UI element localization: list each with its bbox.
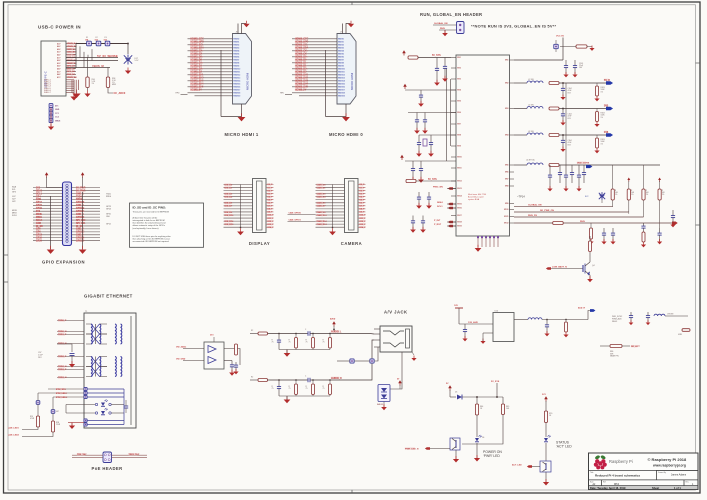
PMIC bottom pin 6 — [497, 236, 499, 247]
ground C A2 — [442, 76, 448, 82]
svg-text:75: 75 — [323, 341, 325, 343]
wire MICRO HDMI 0 pin 1 — [292, 38, 337, 40]
svg-text:D7_P: D7_P — [268, 206, 274, 208]
resistor R divider 1 top — [612, 165, 614, 189]
date and sheet row — [589, 486, 698, 489]
wire LED returns right — [111, 404, 124, 406]
svg-text:D5_P: D5_P — [360, 199, 366, 201]
svg-text:MICRO HDMI 0: MICRO HDMI 0 — [329, 132, 363, 137]
wire GPIO right pin row 2 — [72, 190, 101, 192]
wire GPIO right pin row 9 — [72, 210, 101, 212]
svg-text:DIS_D1: DIS_D1 — [225, 187, 233, 189]
wire GPIO right pin row 5 — [72, 198, 101, 200]
net label MICRO HDMI 0 D1- — [295, 65, 308, 68]
svg-text:system BGA: system BGA — [468, 198, 480, 201]
svg-text:HDMI1_SCL: HDMI1_SCL — [191, 45, 205, 47]
wire MICRO HDMI 1 pin 17 — [188, 86, 233, 88]
svg-text:GP12: GP12 — [106, 224, 111, 226]
wire MICRO HDMI 1 pin 10 — [195, 65, 233, 67]
power flag 3V3 ACT LED — [544, 396, 548, 401]
shunt component audio right 2 — [295, 380, 297, 384]
ground GPIO left — [47, 246, 55, 254]
wire DISPLAY pin 11 right stub — [266, 214, 274, 216]
svg-text:TMDS16: TMDS16 — [338, 87, 345, 89]
svg-text:DISPLAY: DISPLAY — [249, 241, 270, 246]
wire L wifi right — [665, 315, 688, 317]
net label MICRO HDMI 0 CK- — [295, 53, 308, 56]
ferrite bead FB eth LED2 — [51, 410, 55, 414]
wire GPIO left pin row 17 — [33, 234, 63, 236]
svg-text:Sheet: Sheet — [652, 486, 659, 490]
svg-text:5V_B: 5V_B — [604, 79, 610, 82]
net label TRD2_N — [58, 365, 67, 368]
ground LED PWR — [476, 443, 478, 458]
wire ethernet TRD0_N — [57, 331, 84, 333]
svg-text:SPI_CE0: SPI_CE0 — [76, 220, 86, 222]
svg-text:D8_P: D8_P — [268, 209, 274, 211]
svg-text:D2_P: D2_P — [360, 190, 366, 192]
wire CAMERA pin 10 right stub — [358, 211, 366, 213]
net label MICRO HDMI 1 D2+ — [190, 68, 204, 71]
wire DISPLAY pin 11 left — [224, 214, 253, 216]
svg-text:TMDS10: TMDS10 — [233, 69, 240, 71]
svg-text:5V_PWR: 5V_PWR — [76, 190, 86, 192]
op-amp U7B triangle — [208, 357, 216, 364]
svg-text:TRD3_N: TRD3_N — [58, 377, 67, 379]
svg-text:GND_5: GND_5 — [76, 235, 84, 237]
wire CAMERA pin 15 right stub — [358, 226, 366, 228]
svg-text:D6_P: D6_P — [268, 203, 274, 205]
connector MICRO HDMI 1 body J1 — [233, 34, 252, 105]
wire MICRO HDMI 1 pin 20 — [195, 95, 233, 97]
PMIC right pin R7 stub — [510, 178, 515, 180]
svg-text:DIS_D4: DIS_D4 — [225, 196, 233, 199]
wire GPIO left pin row 6 — [33, 201, 63, 203]
PMIC bottom pin 1 — [477, 236, 479, 247]
wire USB-C pin SBU1_A8 — [66, 59, 76, 61]
wire GPIO left pin row 1 — [33, 187, 63, 189]
svg-text:HDMI0_SH3: HDMI0_SH3 — [295, 81, 309, 83]
shunt component audio left 2 — [295, 334, 297, 338]
net label MICRO HDMI 1 HPD — [190, 41, 204, 44]
current sense resistor 1V8 — [549, 134, 559, 137]
svg-text:6V3: 6V3 — [568, 144, 571, 146]
svg-text:CC_ADC0: CC_ADC0 — [114, 92, 126, 95]
A/V jack inner contact bar — [406, 329, 410, 348]
net port VDD_CORE — [586, 165, 592, 168]
svg-text:5V_PWR: 5V_PWR — [76, 187, 86, 189]
ground C A1 — [434, 80, 440, 86]
ground Q4 source — [589, 275, 591, 279]
svg-text:HDMI1_D1-: HDMI1_D1- — [191, 66, 203, 68]
svg-text:GPIO23: GPIO23 — [76, 208, 85, 210]
ground audio left chain — [284, 350, 291, 357]
PMIC left pin 9 stub — [451, 145, 456, 147]
capacitor C out 3V3 1 — [561, 109, 565, 123]
svg-text:than attaching an I2C ID EEPRO: than attaching an I2C ID EEPROM. Leave — [133, 237, 171, 240]
net port 5V_B — [606, 81, 613, 85]
svg-text:TMDS18: TMDS18 — [338, 93, 345, 95]
svg-text:TMDS18: TMDS18 — [233, 93, 240, 95]
svg-text:TMDS8: TMDS8 — [338, 63, 344, 65]
svg-text:REG3: REG3 — [612, 321, 617, 323]
wire DISPLAY pin 4 right stub — [266, 193, 274, 195]
capacitor C audio vdd — [463, 324, 467, 338]
wire 5V_B node — [559, 82, 606, 84]
wire CAMERA pin 14 left — [316, 223, 345, 225]
svg-text:GND: GND — [36, 199, 41, 201]
current sense resistor 3V3 — [549, 107, 559, 110]
capacitor C input E2 — [419, 161, 423, 179]
inductor L audio — [528, 318, 542, 320]
capacitor C out 1V8 1 — [561, 135, 565, 149]
ground C core bank 550 — [547, 186, 552, 191]
svg-text:TR23_TAP: TR23_TAP — [129, 453, 140, 456]
svg-text:These pins are reserved for ID: These pins are reserved for ID EEPROM — [133, 212, 170, 214]
wire GPIO left pin row 19 — [33, 240, 63, 242]
DISPLAY ground drop wire — [240, 185, 242, 228]
wire MICRO HDMI 0 pin 5 — [292, 50, 337, 52]
svg-text:SCL1: SCL1 — [437, 206, 443, 208]
svg-text:TMDS3: TMDS3 — [233, 48, 239, 50]
wire CAMERA pin 1 left — [316, 184, 345, 186]
resistor R pullup top — [576, 45, 587, 48]
svg-text:D7_P: D7_P — [360, 206, 366, 208]
wire DISPLAY pin 14 right stub — [266, 223, 274, 225]
wire DISPLAY pin 7 left — [224, 202, 253, 204]
resistor R fb 3V3 — [596, 109, 598, 112]
PMIC left pin 16 stub — [451, 207, 456, 209]
svg-text:unconnected if ID EEPROM not r: unconnected if ID EEPROM not required. — [133, 240, 170, 243]
wire Q4 drain to rail — [589, 236, 591, 241]
svg-text:D9_P: D9_P — [360, 212, 366, 214]
ground C F1 — [416, 203, 422, 209]
svg-text:CC1: CC1 — [55, 113, 59, 115]
MICRO HDMI 0 shield bus vertical — [325, 50, 327, 117]
svg-text:A/V JACK: A/V JACK — [384, 310, 408, 315]
wire GPIO right pin row 8 — [72, 207, 101, 209]
resistor R eth LED2 — [51, 421, 54, 432]
PMIC left pin 19 stub — [451, 225, 456, 227]
svg-text:GP13: GP13 — [36, 235, 43, 237]
svg-text:VIN13: VIN13 — [457, 188, 462, 190]
wire VDD_CORE rail — [559, 164, 660, 166]
net label MICRO HDMI 1 SCL — [190, 44, 204, 47]
wire ethernet TRD1_P — [57, 334, 84, 336]
wire DISPLAY pin 10 right stub — [266, 211, 274, 213]
ground C core bank 579 — [576, 186, 581, 191]
svg-text:D0_P: D0_P — [360, 184, 366, 186]
wire ethernet TRD3_P — [57, 369, 84, 371]
MICRO HDMI 0 shield bus bottom — [326, 116, 347, 118]
svg-text:ID_SD: ID_SD — [36, 226, 43, 228]
jack LED pin square 2 — [84, 391, 87, 394]
fuse F1 on VBUS rail — [87, 41, 92, 46]
svg-text:5V_SYS: 5V_SYS — [491, 381, 500, 383]
wire USB-C pin SBU2_B8 — [66, 62, 76, 64]
svg-text:75: 75 — [272, 388, 274, 390]
wire GPIO right pin row 4 — [72, 195, 101, 197]
svg-text:HDMI1_D0-: HDMI1_D0- — [191, 60, 203, 62]
transistor Q4 body — [583, 262, 590, 276]
svg-text:GND_A1: GND_A1 — [67, 48, 76, 51]
svg-text:SW7: SW7 — [505, 179, 509, 181]
wire shell bus down 3 — [77, 80, 79, 90]
net label TR0_TAP — [77, 453, 87, 456]
wire mesh v2 — [83, 52, 85, 68]
svg-text:D10_P: D10_P — [360, 215, 367, 217]
shunt component audio left 4 — [329, 334, 331, 338]
svg-text:CAM_D6: CAM_D6 — [317, 202, 327, 205]
PMIC right pin R4 stub — [510, 134, 515, 136]
wire MICRO HDMI 1 pin 13 — [188, 74, 233, 76]
wire CAMERA pin 4 left — [316, 193, 345, 195]
wire mesh h2 — [66, 67, 110, 69]
svg-text:TMDS9: TMDS9 — [233, 66, 239, 68]
wire DISPLAY pin 6 right stub — [266, 199, 274, 201]
wire DISPLAY pin 9 right stub — [266, 208, 274, 210]
svg-text:(and optionally, Linux drivers: (and optionally, Linux drivers). — [133, 227, 160, 230]
wire MICRO HDMI 0 pin 8 — [299, 59, 337, 61]
capacitor C 5V rail 2 — [573, 60, 577, 74]
svg-text:L4 4R7 1A: L4 4R7 1A — [526, 159, 535, 162]
svg-text:TMDS9: TMDS9 — [338, 66, 344, 68]
wire MICRO HDMI 1 pin 6 — [195, 53, 233, 55]
resistor R RUN series — [553, 222, 564, 225]
PMIC left pin 11 stub — [451, 167, 456, 169]
svg-text:TRD0_N: TRD0_N — [58, 331, 67, 333]
wire MICRO HDMI 0 pin 2 — [299, 41, 337, 43]
svg-text:AUDIO_L: AUDIO_L — [331, 330, 342, 333]
svg-text:SD_PWR_ON: SD_PWR_ON — [540, 210, 554, 212]
wire MICRO HDMI 0 pin 19 — [292, 92, 337, 94]
resistor R98 CC2 pulldown — [107, 68, 109, 78]
ground test header — [48, 124, 54, 130]
net port RUN right — [672, 222, 678, 225]
wire GPIO right pin row 3 — [72, 193, 101, 195]
svg-text:TXD0: TXD0 — [76, 196, 83, 198]
wire GPIO right pin row 16 — [72, 231, 101, 233]
svg-text:TMDS12: TMDS12 — [338, 75, 345, 77]
MICRO HDMI 1 top stub 2 — [237, 24, 239, 34]
ferrite bead FB jack 1 — [350, 359, 354, 363]
wire CAMERA pin 9 right stub — [358, 208, 366, 210]
capacitor C input C2 — [423, 113, 427, 131]
wire CAMERA pin 14 right stub — [358, 223, 366, 225]
wire PMIC input bus vertical 2 — [450, 79, 452, 146]
svg-text:PoE HEADER: PoE HEADER — [92, 466, 123, 471]
wire DISPLAY pin 6 left — [224, 199, 253, 201]
svg-text:BAV99: BAV99 — [377, 403, 384, 406]
ground PMIC exposed pad — [475, 245, 482, 252]
wire PoE left 2 — [72, 457, 103, 459]
svg-text:R2: R2 — [251, 330, 253, 332]
svg-text:TMDS13: TMDS13 — [338, 78, 345, 80]
svg-text:CAM_D4: CAM_D4 — [317, 196, 327, 199]
test pin TP1 — [49, 104, 53, 108]
wire blue jack trace low 1 — [88, 420, 125, 422]
wire USB-C pin GND_B12 — [66, 51, 76, 53]
svg-text:ID_SC: ID_SC — [76, 226, 83, 228]
net label MICRO HDMI 1 D1- — [190, 65, 203, 68]
net label MICRO HDMI 0 SDA — [295, 47, 309, 50]
wire GPIO left pin row 7 — [33, 204, 63, 206]
wire USB-C shell pin 2 — [66, 81, 74, 83]
svg-text:MICRO HDMI: MICRO HDMI — [350, 73, 354, 90]
svg-text:DIS_D12: DIS_D12 — [225, 221, 235, 223]
wire shunt bus audio right — [279, 395, 330, 397]
svg-text:MINI: MINI — [112, 84, 116, 86]
svg-text:3V3: 3V3 — [604, 104, 609, 107]
junction VBUS-TVS — [127, 43, 129, 45]
wire signal RUN_PG — [514, 216, 644, 218]
header J9 PoE body — [103, 452, 112, 463]
wire MICRO HDMI 0 pin 18 — [299, 89, 337, 91]
connector J1 USB-C body — [41, 41, 66, 96]
wire 5V to diode — [449, 390, 451, 397]
net port LOW_BATT_N — [546, 267, 551, 270]
svg-text:CAM_GPIO0: CAM_GPIO0 — [289, 212, 302, 215]
svg-text:SDA1: SDA1 — [36, 189, 43, 192]
svg-text:VID_2DAC: VID_2DAC — [176, 345, 187, 348]
svg-text:TMDS4: TMDS4 — [338, 50, 344, 53]
ground C core bank 566 — [563, 186, 568, 191]
border zone tick left 2 — [4, 281, 9, 283]
net port SDA1 — [448, 203, 453, 206]
ground C 5V rail 1 — [563, 72, 568, 77]
inductor L2 — [527, 107, 543, 109]
svg-text:TMDS15: TMDS15 — [338, 84, 345, 86]
PMIC left pin 15 stub — [451, 203, 456, 205]
fuse F3 on VBUS rail — [105, 41, 110, 46]
PMIC left pin 10 stub — [451, 156, 456, 158]
wire MICRO HDMI 0 pin 16 — [299, 83, 337, 85]
wire DISPLAY pin 8 right stub — [266, 205, 274, 207]
wire CAMERA pin 8 right stub — [358, 205, 366, 207]
shunt component audio left 1 — [277, 334, 281, 350]
svg-text:D6_P: D6_P — [360, 203, 366, 205]
note box ID_SD and ID_SC PINS — [130, 203, 204, 247]
wire DISPLAY pin 1 right stub — [266, 184, 274, 186]
svg-text:J7: J7 — [340, 32, 342, 34]
svg-text:GND_2: GND_2 — [76, 205, 84, 207]
wire GPIO left pin row 15 — [33, 228, 63, 230]
wire CAMERA pin 4 right stub — [358, 193, 366, 195]
wire eth LED signal 2 — [38, 392, 84, 394]
wire R96 bottom — [87, 88, 89, 91]
wire audio filter node — [542, 319, 588, 321]
wire USB-C pin DP1_A6 — [66, 65, 76, 67]
ground C out 1V8 1 — [560, 147, 565, 152]
wire GPIO left pin row 13 — [33, 222, 63, 224]
current sense resistor core — [549, 164, 559, 167]
svg-text:TRD2_P: TRD2_P — [58, 356, 67, 358]
PMIC left pin 3 stub — [451, 78, 456, 80]
wire PMIC output 3V3 to inductor — [514, 108, 527, 110]
capacitor C sig3 — [658, 228, 662, 241]
svg-text:CAM_D0: CAM_D0 — [317, 183, 327, 186]
PMIC bottom pin 3 — [485, 236, 487, 247]
PMIC bottom pin 2 — [481, 236, 483, 247]
wire GPIO left pin row 11 — [33, 216, 63, 218]
svg-text:GPIO25: GPIO25 — [76, 217, 85, 219]
svg-text:HDMI0_D1-: HDMI0_D1- — [295, 66, 307, 68]
ground DISPLAY — [237, 228, 244, 235]
svg-text:5V_SYS: 5V_SYS — [428, 179, 437, 181]
wire 5V bus vertical collect — [75, 44, 77, 69]
svg-text:CAM_D3: CAM_D3 — [317, 192, 327, 195]
svg-text:GP26: GP26 — [36, 241, 43, 243]
wire shell bus down 4 — [71, 80, 73, 93]
svg-text:HPD: HPD — [280, 93, 285, 95]
svg-text:D14_P: D14_P — [360, 226, 367, 229]
svg-text:GP5: GP5 — [36, 229, 41, 231]
transformer winding pair at y 329 — [86, 324, 122, 334]
svg-text:D13_P: D13_P — [360, 224, 367, 226]
title block divider 2 — [589, 479, 699, 481]
net label eth LED 1 — [56, 388, 67, 391]
wire LED1 feed — [66, 404, 95, 406]
test pin TP2 — [49, 107, 53, 111]
wire DISPLAY pin 8 left — [224, 205, 253, 207]
wire MICRO HDMI 1 pin 7 — [188, 56, 233, 58]
svg-text:MISO: MISO — [36, 217, 42, 219]
svg-text:VIN3: VIN3 — [457, 79, 461, 81]
ground C97 — [71, 356, 73, 365]
transistor Q PWR body — [450, 438, 460, 450]
wire GLOBAL_EN to header — [433, 24, 457, 26]
svg-text:3V3: 3V3 — [36, 211, 41, 213]
ground C E1 — [410, 177, 416, 183]
wire ETH_LED2 out — [22, 432, 53, 437]
PMIC U3 body — [456, 55, 510, 236]
wire blue jack trace 3 — [88, 396, 125, 398]
svg-text:D5_P: D5_P — [268, 199, 274, 201]
svg-text:CC1_A5: CC1_A5 — [67, 53, 76, 56]
wire enable feed — [416, 180, 456, 182]
wire 5V_SYS tick — [496, 383, 498, 397]
wire LED2 feed — [66, 412, 95, 414]
svg-text:ETH_LED1: ETH_LED1 — [56, 393, 68, 395]
resistor R fb 1V8 — [596, 135, 598, 138]
svg-text:SW5: SW5 — [505, 165, 509, 167]
capacitor C input C1 — [415, 113, 419, 131]
net label MICRO HDMI 0 D0+ — [295, 56, 309, 59]
svg-text:CAM_D9: CAM_D9 — [317, 211, 327, 214]
ground C video — [229, 370, 235, 376]
svg-text:RUN, GLOBAL_EN HEADER: RUN, GLOBAL_EN HEADER — [420, 12, 482, 17]
net label MICRO HDMI 0 SH2 — [295, 77, 309, 80]
wire audio right node run — [268, 379, 308, 381]
ground Q PWR — [455, 450, 457, 459]
ground C sig2 — [641, 242, 646, 247]
ground C G2 — [420, 227, 426, 233]
svg-text:HDMI0_D1+: HDMI0_D1+ — [295, 63, 308, 65]
wire CAMERA pin 2 left — [316, 187, 345, 189]
svg-text:GLOBAL_EN: GLOBAL_EN — [528, 204, 542, 207]
svg-text:SPI_CE1: SPI_CE1 — [76, 223, 86, 225]
wire CAMERA pin 13 left — [316, 220, 345, 222]
wire CAMERA pin 1 right stub — [358, 184, 366, 186]
ground MICRO HDMI 0 bottom — [342, 113, 350, 121]
svg-text:MICRO HDMI: MICRO HDMI — [246, 73, 250, 90]
wire CAMERA pin 13 right stub — [358, 220, 366, 222]
svg-text:HDMI1_SH3: HDMI1_SH3 — [191, 81, 205, 83]
svg-text:ETH_LED2: ETH_LED2 — [56, 397, 68, 399]
svg-text:HDMI1_CK-: HDMI1_CK- — [191, 54, 204, 56]
wire DISPLAY pin 5 left — [224, 196, 253, 198]
svg-text:GPIO16: GPIO16 — [76, 238, 85, 240]
